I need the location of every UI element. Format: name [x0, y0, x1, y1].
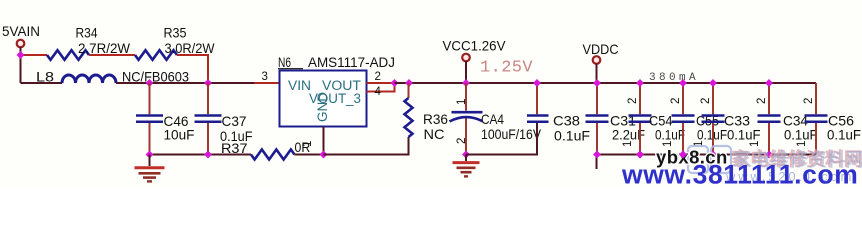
svg-text:1: 1: [622, 141, 634, 147]
pin 2 wire: [367, 82, 395, 84]
junction C37 top: [204, 79, 212, 87]
junction CA4 top: [462, 79, 470, 87]
svg-text:C37: C37: [222, 113, 247, 129]
capacitor C56: [815, 83, 817, 155]
svg-text:2: 2: [700, 98, 712, 104]
svg-text:0.1uF: 0.1uF: [827, 127, 861, 143]
resistor R34: [47, 50, 89, 60]
junction bottom rail x=683: [679, 151, 687, 159]
junction CA4 bottom: [462, 151, 470, 159]
watermark logo squares: [688, 146, 708, 173]
5VAIN terminal: [17, 40, 25, 48]
svg-text:0.1uF: 0.1uF: [784, 127, 818, 143]
capacitor CA4: [465, 83, 467, 155]
svg-text:0.1uF: 0.1uF: [655, 127, 685, 143]
svg-text:1: 1: [749, 141, 761, 147]
svg-text:1: 1: [302, 141, 314, 147]
svg-text:L8: L8: [36, 69, 54, 85]
junction overlays on ground rail: [636, 151, 644, 159]
junction bottom rail x=713: [709, 151, 717, 159]
junction C38 top: [533, 79, 541, 87]
pin 4 wire: [367, 83, 395, 92]
svg-text:2: 2: [627, 98, 639, 104]
svg-text:100uF/16V: 100uF/16V: [481, 126, 542, 142]
svg-text:N6: N6: [278, 54, 291, 70]
capacitor C33: [712, 83, 714, 155]
junction 5VAIN node: [17, 51, 25, 59]
regulator U N6 AMS1117-ADJ: [280, 71, 367, 127]
svg-text:R35: R35: [164, 25, 187, 41]
ground under CA4: [465, 155, 467, 162]
wire ground row left: [150, 154, 252, 156]
junction bottom rail x=640: [636, 151, 644, 159]
wire R34-R35: [89, 54, 135, 56]
junction bottom rail x=597: [593, 151, 601, 159]
capacitor C31: [596, 83, 598, 155]
wire L8 to IC VIN: [116, 82, 254, 84]
svg-text:1: 1: [796, 141, 808, 147]
capacitor C46: [149, 83, 151, 155]
capacitor C38: [536, 83, 538, 114]
resistor R37 0R: [251, 150, 294, 160]
svg-text:NC: NC: [424, 126, 445, 142]
svg-text:VCC1.26V: VCC1.26V: [443, 38, 507, 54]
svg-text:www.3811111.com: www.3811111.com: [621, 160, 858, 188]
junction IC gnd: [320, 151, 328, 159]
svg-text:VIN: VIN: [288, 78, 311, 93]
svg-text:R37: R37: [221, 140, 248, 156]
svg-text:0.1uF: 0.1uF: [554, 127, 590, 143]
svg-text:3: 3: [262, 71, 268, 83]
svg-text:2.7R/2W: 2.7R/2W: [78, 40, 131, 56]
ground rail bottom right: [597, 154, 816, 156]
wire 5VAIN vertical: [20, 47, 22, 83]
svg-text:4: 4: [375, 86, 382, 98]
stub below VDDC node: [596, 155, 598, 170]
svg-text:2: 2: [456, 138, 468, 144]
svg-text:380mA: 380mA: [649, 72, 699, 84]
svg-text:0.1uF: 0.1uF: [727, 127, 761, 143]
ground under C46: [149, 155, 151, 167]
VCC rail: [395, 82, 817, 84]
capacitor C55: [682, 83, 684, 155]
junction C46 top: [146, 79, 154, 87]
svg-text:R36: R36: [423, 111, 448, 127]
svg-text:1.25V: 1.25V: [480, 59, 533, 78]
svg-text:GND: GND: [315, 92, 330, 122]
resistor R36: [408, 83, 410, 98]
svg-text:2: 2: [756, 98, 768, 104]
svg-text:2: 2: [670, 98, 682, 104]
capacitor C37: [207, 83, 209, 155]
wire R37 to gnd junction: [295, 154, 324, 156]
svg-text:3.0R/2W: 3.0R/2W: [165, 40, 216, 56]
wire CA4 gnd to C38: [466, 123, 537, 155]
wire L8 row left: [21, 82, 63, 84]
inductor L8: [62, 75, 116, 83]
svg-text:2: 2: [803, 98, 815, 104]
capacitor C34: [768, 83, 770, 155]
svg-text:VDDC: VDDC: [583, 41, 619, 57]
wire R35 corner down: [177, 55, 208, 83]
junction R36 top: [405, 79, 413, 87]
IC gnd pin wire: [323, 127, 325, 155]
wire top row to R34: [21, 54, 48, 56]
junction pin4: [391, 79, 399, 87]
svg-text:1: 1: [456, 99, 468, 105]
resistor R35: [135, 50, 177, 60]
svg-text:5VAIN: 5VAIN: [2, 23, 40, 39]
junction bottom rail x=769: [765, 151, 773, 159]
svg-text:R34: R34: [76, 25, 98, 41]
svg-text:10uF: 10uF: [164, 126, 195, 142]
svg-text:CA4: CA4: [481, 111, 504, 127]
wire gnd row to R36: [324, 137, 409, 155]
capacitor C54: [639, 83, 641, 155]
svg-text:AMS1117-ADJ: AMS1117-ADJ: [308, 54, 395, 70]
junction C37 bottom: [204, 151, 212, 159]
svg-text:C38: C38: [553, 113, 580, 129]
junction C46 bottom: [146, 151, 154, 159]
svg-text:2: 2: [375, 71, 381, 83]
